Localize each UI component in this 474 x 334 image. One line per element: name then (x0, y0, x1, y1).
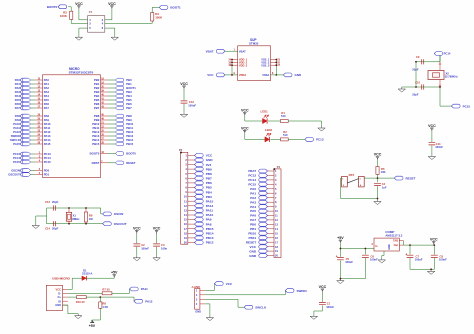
svg-text:PA9: PA9 (15, 118, 21, 122)
svg-text:PA12: PA12 (13, 130, 20, 134)
svg-text:GND: GND (295, 73, 303, 77)
svg-text:PB0: PB0 (250, 223, 256, 227)
svg-text:PA7: PA7 (44, 106, 50, 110)
svg-text:C9: C9 (416, 55, 420, 59)
svg-text:VCC: VCC (207, 73, 214, 77)
svg-text:PB5: PB5 (206, 186, 212, 190)
svg-text:VCC: VCC (75, 2, 83, 6)
svg-text:NRST: NRST (92, 161, 100, 165)
svg-text:PA5: PA5 (15, 98, 21, 102)
svg-text:VCC: VCC (374, 153, 382, 157)
svg-text:PD1: PD1 (44, 173, 50, 177)
svg-text:VCC: VCC (133, 227, 141, 231)
svg-text:PA0: PA0 (250, 187, 256, 191)
svg-text:PB7: PB7 (126, 106, 132, 110)
svg-text:PA12: PA12 (145, 299, 153, 303)
svg-text:VCC: VCC (56, 288, 62, 292)
svg-text:D-: D- (58, 291, 61, 295)
svg-text:PB12: PB12 (206, 241, 214, 245)
svg-text:PC15: PC15 (13, 160, 20, 164)
svg-text:GND: GND (195, 310, 201, 314)
svg-text:8MHz: 8MHz (72, 217, 80, 221)
svg-text:PB13: PB13 (206, 236, 214, 240)
svg-text:P4: P4 (277, 165, 281, 169)
svg-text:PB8: PB8 (206, 172, 212, 176)
svg-text:VSSA: VSSA (262, 73, 269, 77)
svg-text:R7 20: R7 20 (102, 287, 110, 291)
svg-text:PA10: PA10 (206, 213, 214, 217)
svg-text:PA1: PA1 (15, 82, 21, 86)
svg-text:PB1: PB1 (250, 227, 256, 231)
svg-text:VCC: VCC (428, 124, 436, 128)
svg-text:20pF: 20pF (52, 200, 59, 204)
svg-text:ID: ID (58, 299, 61, 303)
svg-text:PA5: PA5 (250, 209, 256, 213)
svg-text:100uF: 100uF (345, 260, 353, 264)
svg-text:PB15: PB15 (126, 142, 133, 146)
svg-text:20pF: 20pF (52, 227, 59, 231)
svg-text:VCC: VCC (250, 245, 257, 249)
svg-text:VCC: VCC (319, 285, 327, 289)
svg-text:In: In (375, 244, 378, 248)
svg-text:PB7: PB7 (94, 106, 100, 110)
svg-text:PB11: PB11 (249, 236, 257, 240)
svg-text:OSCOUT: OSCOUT (114, 222, 127, 226)
svg-text:SWCLK: SWCLK (255, 305, 267, 309)
svg-text:AMS1117-3.3: AMS1117-3.3 (385, 234, 402, 238)
svg-text:PB15: PB15 (206, 227, 214, 231)
svg-text:PA6: PA6 (15, 102, 21, 106)
svg-text:GND: GND (249, 254, 257, 258)
svg-text:PA4: PA4 (250, 205, 256, 209)
svg-text:OSCOUT: OSCOUT (8, 173, 20, 177)
svg-text:RST: RST (349, 173, 355, 177)
svg-text:SWDIO: SWDIO (11, 134, 20, 138)
svg-text:Out: Out (394, 243, 399, 247)
svg-text:GND: GND (206, 158, 214, 162)
svg-text:STM32: STM32 (249, 41, 259, 45)
svg-text:PB4: PB4 (206, 190, 212, 194)
svg-text:OSCIN: OSCIN (11, 169, 20, 173)
svg-text:TAB: TAB (393, 239, 398, 243)
svg-text:SWCLK: SWCLK (10, 138, 20, 142)
svg-text:PA4: PA4 (15, 94, 21, 98)
svg-text:GND: GND (55, 303, 61, 307)
svg-text:510: 510 (281, 114, 286, 118)
svg-text:SS110-A: SS110-A (82, 272, 93, 276)
svg-text:VCC: VCC (241, 126, 249, 130)
svg-text:PA7: PA7 (15, 106, 21, 110)
svg-text:VDDA: VDDA (239, 73, 246, 77)
svg-text:J-LINK: J-LINK (191, 285, 200, 289)
svg-text:100uF: 100uF (415, 258, 423, 262)
svg-text:PB3: PB3 (206, 195, 212, 199)
svg-text:1.5K: 1.5K (102, 305, 108, 309)
svg-text:VBAT: VBAT (206, 49, 214, 53)
svg-text:100nF: 100nF (435, 145, 443, 149)
svg-text:PA12: PA12 (206, 204, 214, 208)
svg-text:PC13: PC13 (13, 152, 20, 156)
svg-text:100K: 100K (60, 14, 68, 18)
svg-text:+5V: +5V (337, 236, 344, 240)
svg-text:OSCIN: OSCIN (114, 212, 124, 216)
svg-text:BOOT0: BOOT0 (126, 152, 136, 156)
svg-text:100K: 100K (155, 15, 163, 19)
svg-text:PA9: PA9 (206, 218, 212, 222)
svg-text:LED1: LED1 (261, 109, 269, 113)
svg-text:+: + (336, 255, 338, 259)
svg-text:GND: GND (388, 244, 391, 250)
svg-text:VCC: VCC (226, 282, 233, 286)
svg-text:VCC: VCC (206, 154, 213, 158)
svg-text:PA11: PA11 (141, 287, 148, 291)
svg-text:GND: GND (249, 249, 257, 253)
svg-text:1uF: 1uF (382, 185, 387, 189)
svg-text:LED2: LED2 (265, 128, 273, 132)
svg-text:+: + (405, 252, 407, 256)
svg-text:PA3: PA3 (15, 90, 21, 94)
svg-text:PA15: PA15 (206, 199, 214, 203)
svg-text:PC13: PC13 (248, 174, 256, 178)
svg-text:3V3: 3V3 (206, 163, 212, 167)
svg-text:10K: 10K (381, 170, 386, 174)
svg-text:100nF: 100nF (370, 258, 378, 262)
svg-text:20pF: 20pF (412, 68, 419, 72)
svg-text:VCC: VCC (153, 227, 161, 231)
svg-text:PA15: PA15 (13, 142, 20, 146)
svg-text:PC14: PC14 (444, 52, 451, 56)
svg-text:100n: 100n (161, 246, 167, 250)
svg-text:PA1: PA1 (250, 191, 256, 195)
svg-text:PA11: PA11 (13, 126, 20, 130)
svg-text:VSS_3: VSS_3 (261, 63, 270, 67)
svg-text:VCC: VCC (180, 82, 188, 86)
svg-text:PC13: PC13 (316, 138, 324, 142)
svg-text:C14: C14 (45, 227, 50, 231)
svg-text:STM32F103C8T6: STM32F103C8T6 (69, 71, 94, 75)
svg-text:PC15: PC15 (44, 160, 51, 164)
svg-text:PA3: PA3 (250, 200, 256, 204)
svg-text:32.768KHz: 32.768KHz (445, 75, 459, 79)
svg-text:VBAT: VBAT (248, 169, 256, 173)
svg-text:20pF: 20pF (412, 93, 419, 97)
svg-text:P1: P1 (89, 10, 93, 14)
svg-text:PB6: PB6 (206, 181, 212, 185)
svg-text:RESET: RESET (126, 161, 136, 165)
svg-text:100nF: 100nF (141, 246, 149, 250)
svg-text:PA7: PA7 (250, 218, 256, 222)
svg-text:VCC: VCC (241, 109, 249, 113)
svg-text:PB7: PB7 (206, 177, 212, 181)
svg-text:+5V: +5V (111, 271, 118, 275)
svg-text:PA10: PA10 (13, 122, 20, 126)
svg-text:PB15: PB15 (92, 142, 99, 146)
svg-text:VCC: VCC (430, 238, 438, 242)
svg-text:VBAT: VBAT (239, 49, 246, 53)
svg-text:PC15: PC15 (463, 104, 471, 108)
svg-text:BOOT1: BOOT1 (170, 6, 181, 10)
svg-text:RESET: RESET (406, 176, 416, 180)
svg-text:510: 510 (283, 133, 288, 137)
svg-text:VCC: VCC (108, 2, 116, 6)
svg-text:PB9: PB9 (206, 167, 212, 171)
svg-text:PC15: PC15 (248, 183, 256, 187)
svg-text:PA15: PA15 (44, 142, 51, 146)
svg-text:+5V: +5V (89, 324, 96, 328)
svg-text:PC14: PC14 (13, 156, 20, 160)
svg-text:USB-MICRO: USB-MICRO (52, 277, 70, 281)
svg-text:PA2: PA2 (15, 86, 21, 90)
svg-text:PA11: PA11 (206, 209, 214, 213)
svg-text:C13: C13 (45, 200, 50, 204)
svg-text:PA8: PA8 (15, 114, 21, 118)
svg-text:100nF: 100nF (188, 103, 196, 107)
svg-text:PB10: PB10 (248, 232, 256, 236)
svg-text:RESET: RESET (246, 240, 256, 244)
svg-text:SWDIO: SWDIO (297, 289, 308, 293)
svg-text:PC14: PC14 (248, 178, 256, 182)
svg-text:PA6: PA6 (250, 214, 256, 218)
svg-text:VDD_3: VDD_3 (239, 63, 248, 67)
svg-text:100nF: 100nF (326, 305, 334, 309)
svg-text:R10 20: R10 20 (76, 300, 85, 304)
svg-text:PA8: PA8 (206, 222, 212, 226)
svg-text:PA0: PA0 (15, 78, 21, 82)
svg-text:BOOT0: BOOT0 (90, 152, 100, 156)
svg-text:100nF: 100nF (439, 258, 447, 262)
svg-text:PA2: PA2 (250, 196, 256, 200)
svg-text:D+: D+ (58, 295, 62, 299)
svg-text:PB14: PB14 (206, 232, 214, 236)
svg-text:BOOT0: BOOT0 (47, 5, 58, 9)
